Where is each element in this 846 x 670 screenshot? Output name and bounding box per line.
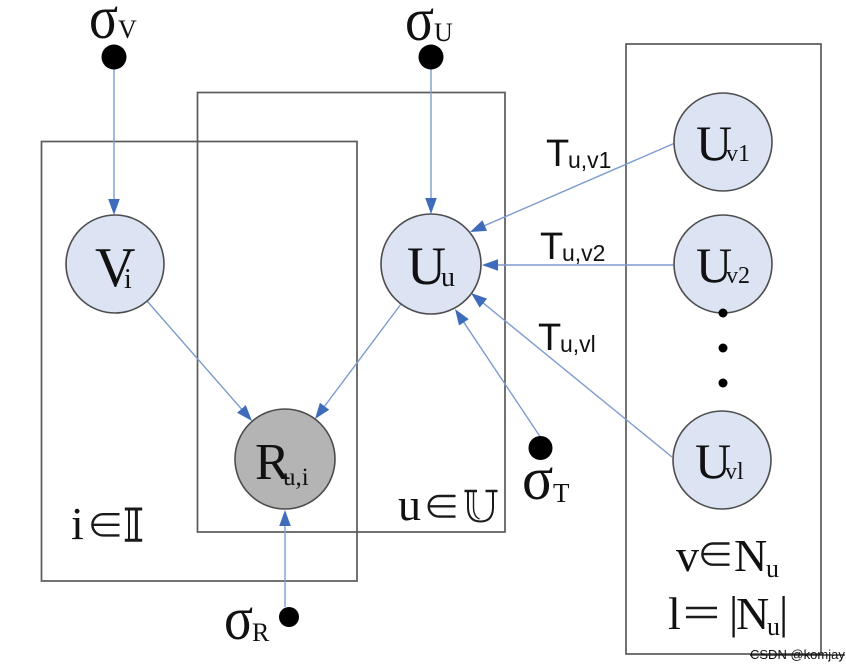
hyperparameter sigma_T label [522,444,570,512]
svg-text:u,vl: u,vl [560,331,596,357]
svg-text:V: V [118,15,137,44]
wire U_vl -> U_u (trust T_u,vl) [471,293,672,457]
plate label l = |N_u| [668,587,788,641]
wire U_v1 -> U_u (trust T_u,v1) [470,143,675,232]
wire sigma_R -> R_u,i [279,510,291,607]
plate label v∈N_u [676,530,779,583]
svg-text:T: T [546,133,569,175]
svg-text:R: R [252,618,270,647]
svg-text:σ: σ [89,0,118,52]
hyperparameter sigma_R dot [279,607,299,627]
node R_u,i (observed rating, shaded) [235,409,335,509]
svg-text:v2: v2 [726,263,750,289]
svg-text:U: U [434,18,453,47]
svg-text:vl: vl [725,459,744,485]
node U_u [381,214,481,314]
watermark CSDN @komjay [750,647,845,662]
hyperparameter sigma_U dot [419,45,444,70]
svg-text:v: v [676,530,699,581]
svg-text:v1: v1 [726,141,750,167]
wire sigma_V -> V_i [108,69,120,215]
vertical ellipsis dots between U_v2 and U_vl [719,309,728,388]
svg-text:u: u [441,262,455,293]
node U_v2 [674,215,772,313]
svg-text:u,v1: u,v1 [568,147,611,173]
svg-text:T: T [538,317,561,359]
wire U_u -> R_u,i [315,304,401,419]
svg-text:l: l [668,588,681,639]
svg-text:CSDN @komjay: CSDN @komjay [750,647,845,662]
svg-text:i: i [71,498,84,549]
wire sigma_U -> U_u [425,69,437,214]
node U_v1 [674,93,772,191]
node V_i [66,215,164,313]
svg-text:σ: σ [224,584,253,653]
svg-text:u,i: u,i [283,464,309,491]
svg-text:u: u [398,479,421,530]
plate label i∈I [71,498,142,549]
edge label T_u,v1 [546,133,611,175]
svg-text:N: N [736,588,769,639]
svg-text:T: T [553,478,570,508]
hyperparameter sigma_V dot [102,45,127,70]
svg-text:u: u [766,554,779,583]
svg-text:N: N [734,530,767,581]
plate label u∈U [398,479,498,530]
edge label T_u,v2 [540,226,605,268]
plate u∈U (middle rectangle) [198,93,506,533]
hyperparameter sigma_U label [405,0,453,54]
plate i∈I (left rectangle) [42,142,358,582]
edge label T_u,vl [538,317,596,359]
svg-text:T: T [540,226,563,268]
svg-text:i: i [124,264,132,295]
hyperparameter sigma_T dot [529,436,553,460]
hyperparameter sigma_V label [89,0,137,52]
plate v∈N_u (right rectangle) [626,44,821,654]
wire U_v2 -> U_u (trust T_u,v2) [482,259,674,271]
wire V_i -> R_u,i [147,301,252,421]
svg-text:|: | [779,587,788,638]
node U_vl [673,411,771,509]
hyperparameter sigma_R label [224,584,270,653]
wire sigma_T -> U_u [455,309,541,438]
svg-text:u,v2: u,v2 [562,240,605,266]
